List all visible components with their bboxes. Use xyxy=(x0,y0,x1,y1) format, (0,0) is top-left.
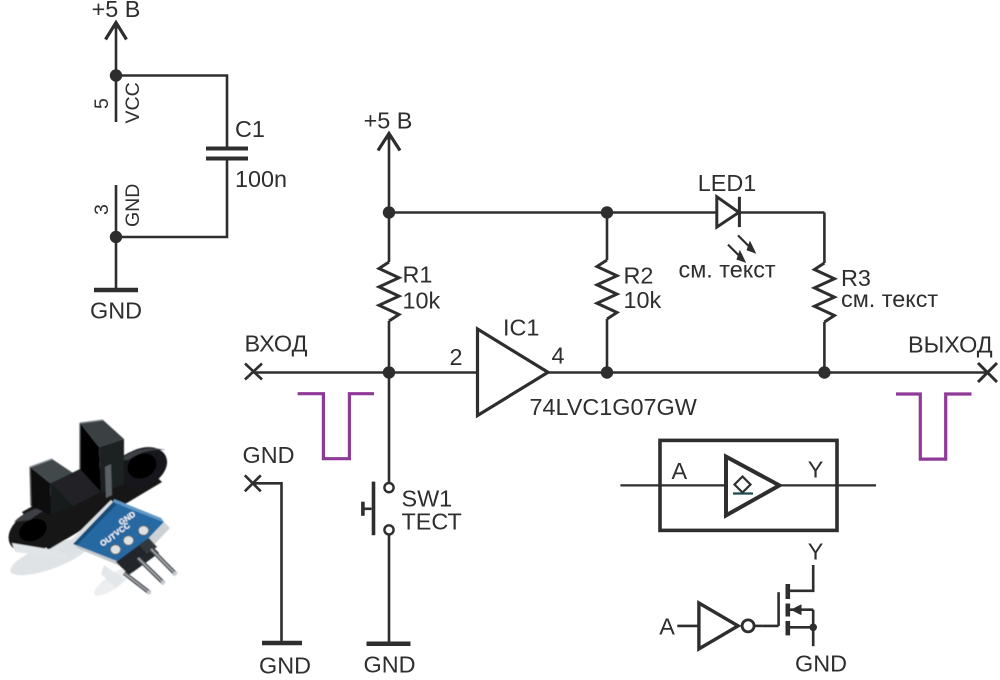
ground symbol (top-left) xyxy=(90,290,142,323)
input terminal X xyxy=(245,330,308,379)
node junction input/R1/SW1 xyxy=(383,366,395,378)
svg-text:см. текст: см. текст xyxy=(841,286,938,312)
capacitor C1 xyxy=(206,116,287,192)
wire VCC node to C1 top xyxy=(116,76,227,148)
svg-text:ВХОД: ВХОД xyxy=(245,330,308,356)
wire SW1 to ground xyxy=(388,535,391,644)
node junction at GND pin xyxy=(110,231,122,243)
svg-text:3: 3 xyxy=(91,204,113,215)
photo solder joints xyxy=(110,526,148,555)
svg-text:A: A xyxy=(672,458,688,484)
transistor Q1 nmos open-drain xyxy=(762,584,817,646)
svg-text:Y: Y xyxy=(808,539,824,565)
wire node to SW1 xyxy=(388,373,391,484)
photo header pin 2 xyxy=(138,558,164,584)
svg-text:2: 2 xyxy=(450,344,463,370)
photo tower 1 xyxy=(30,459,73,483)
svg-text:GND: GND xyxy=(364,652,416,678)
svg-text:74LVC1G07GW: 74LVC1G07GW xyxy=(530,394,697,420)
photo white rim lower-left xyxy=(12,543,69,559)
photo black connector xyxy=(116,540,159,575)
photo pcb silver edge upper xyxy=(61,500,119,557)
wire IC1 output to output terminal xyxy=(548,371,988,374)
svg-text:10k: 10k xyxy=(403,288,441,314)
LED LED1 xyxy=(679,170,776,283)
svg-text:+5 В: +5 В xyxy=(92,0,141,22)
svg-text:+5 В: +5 В xyxy=(364,107,413,133)
svg-text:4: 4 xyxy=(552,343,565,369)
svg-text:10k: 10k xyxy=(624,287,662,313)
svg-text:GND: GND xyxy=(259,653,311,679)
resistor R1 xyxy=(379,213,441,373)
power +5V arrow (middle) xyxy=(364,107,413,212)
svg-text:VCC: VCC xyxy=(122,82,144,123)
pin 5 VCC of sensor xyxy=(91,76,144,124)
photo soft shadow xyxy=(6,531,93,582)
svg-text:GND: GND xyxy=(122,184,144,227)
svg-text:A: A xyxy=(659,614,675,640)
svg-text:ВЫХОД: ВЫХОД xyxy=(908,332,993,358)
photo lobe top sheen xyxy=(14,505,62,522)
input pulse waveform xyxy=(298,394,374,459)
op-amp buffer IC1 xyxy=(450,314,697,420)
svg-text:IC1: IC1 xyxy=(503,314,539,340)
svg-text:C1: C1 xyxy=(235,116,265,142)
output pulse waveform xyxy=(896,394,972,459)
node junction at VCC pin xyxy=(110,69,122,81)
svg-text:5: 5 xyxy=(91,98,113,109)
wire GND terminal to ground xyxy=(253,483,282,643)
resistor R2 xyxy=(597,213,662,373)
logic symbol box xyxy=(620,440,876,530)
svg-text:GND: GND xyxy=(243,442,295,468)
ground symbol (left bottom) xyxy=(259,643,311,679)
svg-text:см. текст: см. текст xyxy=(679,256,776,282)
svg-text:GND: GND xyxy=(90,297,142,323)
svg-text:GND: GND xyxy=(795,650,847,676)
node junction R3 bottom xyxy=(818,366,830,378)
photo base top band xyxy=(51,469,101,506)
photo header pin 1 xyxy=(124,573,150,593)
resistor R3 xyxy=(814,213,938,373)
node junction R2 top xyxy=(601,206,613,218)
wire input to IC1 xyxy=(254,371,478,374)
pin 3 GND of sensor xyxy=(91,184,144,237)
wire C1 bottom to GND pin node xyxy=(116,160,227,237)
wire +5V rail xyxy=(389,211,824,214)
wire GND pin to ground xyxy=(115,237,118,290)
power +5V arrow (top-left) xyxy=(92,0,141,75)
node junction +5V rail left xyxy=(383,206,395,218)
output terminal X xyxy=(908,332,997,383)
svg-text:Y: Y xyxy=(808,457,824,483)
buffer triangle inside box xyxy=(726,457,779,516)
photo: opto-interrupter sensor module xyxy=(1,420,177,600)
svg-text:LED1: LED1 xyxy=(698,170,757,196)
photo right mounting lobe xyxy=(108,439,174,497)
wire Y to drain xyxy=(790,565,814,591)
photo tower 2 xyxy=(80,420,124,447)
switch SW1 push-button xyxy=(363,482,462,536)
svg-text:ТЕСТ: ТЕСТ xyxy=(402,509,462,535)
node junction R2 bottom xyxy=(601,366,613,378)
photo header pin 3 xyxy=(151,549,176,575)
svg-text:R2: R2 xyxy=(624,263,654,289)
svg-text:100n: 100n xyxy=(235,166,287,192)
photo fork base band xyxy=(22,452,162,550)
svg-text:R1: R1 xyxy=(403,262,433,288)
photo blue PCB xyxy=(73,502,164,564)
GND terminal X (left) xyxy=(243,442,295,491)
photo slot gap xyxy=(105,464,112,498)
photo right hole xyxy=(123,449,160,484)
photo left mounting lobe xyxy=(1,501,70,561)
ground symbol (under SW1) xyxy=(364,644,416,678)
photo underside light wedge xyxy=(101,565,124,588)
photo pcb silver edge lower xyxy=(124,522,170,570)
photo left hole xyxy=(15,514,50,546)
inverter (mosfet circuit) xyxy=(659,603,762,649)
